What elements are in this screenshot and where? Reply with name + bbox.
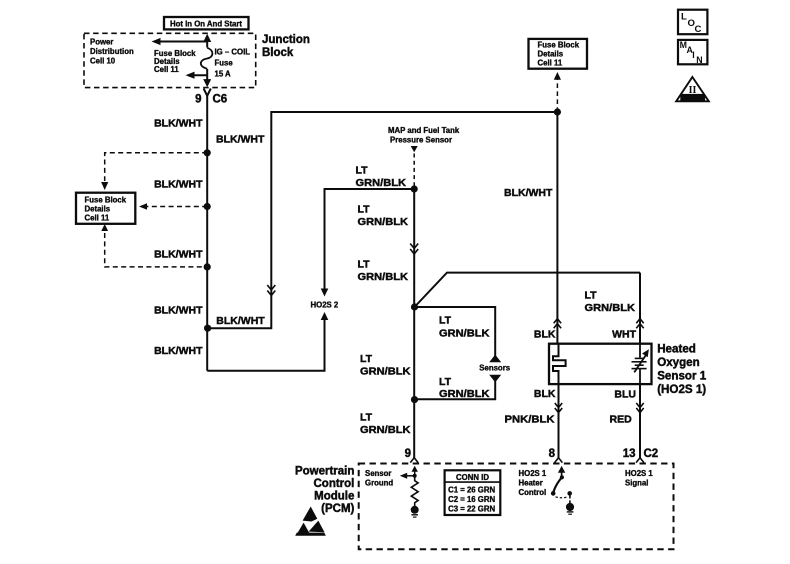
svg-text:C1 = 26 GRN: C1 = 26 GRN [448,485,495,494]
arrow down into fuse block details box [101,182,108,190]
arrow left to power distribution [154,41,207,43]
svg-text:Fuse Block: Fuse Block [538,41,580,50]
OBD II triangle [676,77,709,101]
svg-text:Powertrain: Powertrain [295,466,354,478]
svg-text:GRN/BLK: GRN/BLK [358,271,409,283]
connector chevrons on riser [267,285,275,290]
svg-text:GRN/BLK: GRN/BLK [360,424,411,436]
node sensors loop top dot [411,303,418,310]
svg-text:LT: LT [439,376,452,388]
connector chevrons on LT GRN/BLK wire [410,244,418,249]
svg-text:LT: LT [360,353,373,365]
power source box "Hot In On And Start" [164,17,249,29]
svg-text:Cell 10: Cell 10 [90,57,116,66]
svg-text:Hot In On And Start: Hot In On And Start [170,20,242,29]
switch contact dot [567,491,572,496]
svg-text:Oxygen: Oxygen [657,356,700,369]
wire to HO2S 2 (lower) [207,316,324,371]
connector pin 8 at PCM [555,458,563,463]
fuse block details cell 11 box (left) [76,193,135,224]
svg-text:C6: C6 [213,94,228,106]
svg-text:RED: RED [610,414,633,426]
arrow down to HO2S 2 [321,289,329,297]
wire WHT pigtail down [639,273,641,344]
PCM dashed box [359,464,674,550]
CONN ID table [445,470,501,515]
svg-text:N: N [696,55,702,65]
arrow sensors lower [489,375,501,383]
svg-text:BLK/WHT: BLK/WHT [504,187,553,199]
oxygen sense element [639,344,641,358]
svg-text:BLK: BLK [534,388,556,400]
svg-text:Fuse Block: Fuse Block [85,196,127,205]
svg-text:Distribution: Distribution [90,47,134,56]
heated oxygen sensor 1 box [549,344,652,384]
svg-text:Details: Details [85,205,111,214]
arrow up to hot box [203,34,211,42]
svg-text:HO2S 1: HO2S 1 [519,469,547,478]
svg-text:(HO2S 1): (HO2S 1) [657,383,706,396]
dashed wire to fuse block details (top) [105,153,208,181]
fuse block details cell 11 box (top right) [529,39,588,69]
svg-text:BLK/WHT: BLK/WHT [154,179,203,191]
svg-text:Signal: Signal [625,479,648,488]
connector pin 13 C2 at PCM [636,458,644,463]
svg-text:Power: Power [90,38,113,47]
svg-text:GRN/BLK: GRN/BLK [360,366,411,378]
dashed wire up to fuse block details [556,79,558,112]
arrow up to HO2S 2 [321,312,329,320]
svg-text:LT: LT [356,165,369,177]
node sensor ground dot [413,474,417,478]
svg-text:WHT: WHT [612,329,636,341]
svg-text:Block: Block [262,47,294,59]
LOC box [678,10,707,35]
connector C6 pin 9 [204,89,211,96]
svg-text:Sensors: Sensors [479,364,510,373]
wire junction to riser [207,112,557,328]
svg-text:BLU: BLU [614,389,636,401]
svg-text:13: 13 [623,448,636,460]
node junction dot 1 [204,149,211,156]
svg-text:Heater: Heater [519,479,543,488]
svg-text:IG – COIL: IG – COIL [215,48,251,57]
svg-text:GRN/BLK: GRN/BLK [585,302,636,314]
svg-text:8: 8 [549,448,556,460]
ESD symbol [295,507,326,536]
svg-text:9: 9 [405,448,411,460]
MAIN box [678,40,707,64]
svg-text:GRN/BLK: GRN/BLK [439,388,490,400]
svg-text:GRN/BLK: GRN/BLK [439,328,490,340]
node junction dot 3 [204,263,211,270]
arrow left to fuse block details [188,74,207,76]
svg-text:Heated: Heated [657,343,696,356]
svg-text:BLK/WHT: BLK/WHT [154,249,203,261]
svg-text:Junction: Junction [262,34,310,46]
svg-text:Control: Control [314,478,355,490]
svg-text:C: C [695,24,702,35]
svg-text:Cell 11: Cell 11 [538,59,563,68]
svg-text:C3 = 22 GRN: C3 = 22 GRN [448,505,495,514]
variable arrow through sense element [634,355,646,372]
switch lever [553,477,562,492]
svg-text:Control: Control [519,488,547,497]
sensor ground arrow up [414,469,416,476]
wire LT GRN/BLK main vertical [413,189,415,458]
svg-text:GRN/BLK: GRN/BLK [358,216,409,228]
wire fuse vertical bottom [206,69,208,85]
switch pivot dot [560,475,564,479]
connector pin 9 at PCM [410,458,418,463]
svg-text:GRN/BLK: GRN/BLK [356,177,407,189]
wire BLK/WHT down to sensor [556,112,558,344]
wire BLK/WHT main vertical [206,96,208,371]
wire from MAP junction to HO2S 2 [325,189,415,290]
switch throw dashed [556,496,568,499]
svg-text:Cell 11: Cell 11 [154,65,179,74]
sensor ground arrow left [404,475,415,477]
ground terminal dot [566,503,574,511]
svg-text:(PCM): (PCM) [321,503,354,515]
arrow up into fuse block details box bottom [101,224,108,231]
svg-text:C2 = 16 GRN: C2 = 16 GRN [448,495,495,504]
svg-text:I: I [692,50,694,60]
svg-text:LT: LT [358,259,371,271]
connector chevrons BLK (up) [554,319,561,324]
wire fuse vertical top [206,36,208,48]
svg-text:LT: LT [360,412,373,424]
connector chevrons WHT (up) [636,319,643,324]
svg-text:BLK/WHT: BLK/WHT [216,133,265,145]
svg-text:Pressure Sensor: Pressure Sensor [390,136,452,145]
resistor sensor ground [411,476,418,507]
dashed wire from MAP sensor [413,154,415,187]
svg-text:HO2S 1: HO2S 1 [625,469,653,478]
heater control switch arrow up [561,469,563,477]
wire BLK lower pigtail [558,384,560,458]
svg-text:Sensor: Sensor [365,469,391,478]
svg-text:BLK/WHT: BLK/WHT [216,315,265,327]
fuse IG-COIL element [201,48,213,69]
wire BLU/RED lower pigtail [639,384,641,458]
dashed arrow into fuse block details (middle) [142,206,207,208]
connector chevrons RED (down) [636,403,643,408]
node junction dot 2 [204,203,211,210]
arrow sensors upper [489,355,501,363]
svg-text:Module: Module [314,491,354,503]
wire sensors loop bottom [415,381,496,399]
arrow down at junction block exit [203,79,211,87]
junction block dashed box [84,33,256,87]
svg-text:C2: C2 [644,448,659,460]
svg-text:Cell 11: Cell 11 [85,214,110,223]
svg-text:LT: LT [439,315,452,327]
node sensors loop bottom dot [411,396,418,403]
svg-text:Ground: Ground [365,479,393,488]
wire diagonal to heater feed [415,273,641,307]
node junction dot main split [204,325,211,332]
node MAP junction dot [411,185,418,192]
wire sensors loop top [415,307,496,356]
node riser/feed junction dot [554,108,561,115]
svg-text:LT: LT [358,204,371,216]
svg-text:BLK/WHT: BLK/WHT [154,117,203,129]
svg-text:MAP and Fuel Tank: MAP and Fuel Tank [388,126,460,135]
svg-text:PNK/BLK: PNK/BLK [505,414,555,426]
arrow down from MAP sensor [411,146,418,152]
wire to ground [569,496,571,504]
svg-text:BLK: BLK [534,329,556,341]
arrow up into fuse block details [554,72,561,80]
svg-text:LT: LT [585,290,598,302]
heater element [553,344,566,384]
svg-text:Fuse: Fuse [215,59,234,68]
svg-text:9: 9 [195,94,201,106]
svg-text:15 A: 15 A [215,70,232,79]
ground hatch [567,511,574,513]
svg-text:Sensor 1: Sensor 1 [657,370,707,383]
ground terminal dot [411,506,419,514]
svg-text:OBD II: OBD II [683,96,703,102]
svg-text:Details: Details [538,50,564,59]
dashed wire from fuse block details (bottom) [105,233,208,267]
connector chevrons PNK/BLK (down) [555,403,562,408]
svg-text:L: L [681,12,687,23]
svg-text:HO2S 2: HO2S 2 [311,301,339,310]
svg-text:BLK/WHT: BLK/WHT [154,305,203,317]
svg-text:BLK/WHT: BLK/WHT [154,345,203,357]
svg-text:CONN ID: CONN ID [456,473,489,482]
